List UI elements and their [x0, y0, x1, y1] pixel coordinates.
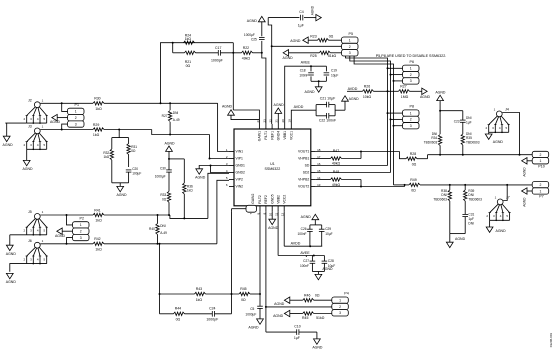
svg-text:2: 2 [339, 305, 341, 309]
svg-text:DNI: DNI [160, 224, 166, 228]
svg-text:2: 2 [540, 153, 542, 157]
svg-text:C21 10µF: C21 10µF [320, 97, 335, 101]
svg-text:R27: R27 [400, 84, 406, 88]
svg-text:1MΩ: 1MΩ [401, 95, 409, 99]
svg-text:0Ω: 0Ω [412, 162, 417, 166]
svg-text:R46: R46 [304, 294, 310, 298]
svg-text:J7: J7 [506, 196, 510, 200]
svg-text:DNI: DNI [466, 116, 472, 120]
svg-text:AGND: AGND [435, 91, 446, 95]
svg-text:49kΩ: 49kΩ [332, 183, 341, 187]
svg-text:P6: P6 [410, 60, 414, 64]
svg-text:AVDD: AVDD [294, 105, 304, 109]
svg-text:1: 1 [410, 111, 412, 115]
svg-text:0Ω: 0Ω [186, 64, 191, 68]
svg-text:AGND: AGND [50, 120, 61, 124]
svg-text:TBD0603: TBD0603 [466, 141, 480, 145]
svg-text:DNI: DNI [441, 193, 447, 197]
svg-text:AGND: AGND [310, 5, 314, 15]
svg-text:R49: R49 [410, 178, 416, 182]
svg-text:AGND: AGND [322, 267, 333, 271]
svg-text:C26: C26 [301, 227, 307, 231]
svg-text:100µF: 100µF [132, 172, 141, 176]
svg-text:J5: J5 [28, 210, 32, 214]
svg-text:AGND: AGND [248, 325, 259, 329]
svg-text:10kΩ: 10kΩ [363, 95, 372, 99]
svg-text:C18: C18 [300, 69, 306, 73]
svg-text:R30: R30 [94, 97, 100, 101]
svg-text:1kΩ: 1kΩ [187, 189, 193, 193]
svg-text:AVEE: AVEE [301, 61, 311, 65]
svg-text:P5: P5 [349, 32, 353, 36]
svg-text:AGND: AGND [247, 19, 258, 23]
svg-text:R47: R47 [333, 149, 339, 153]
svg-text:J6: J6 [28, 239, 32, 243]
svg-text:1kΩ: 1kΩ [95, 107, 102, 111]
svg-text:AGND: AGND [273, 314, 284, 318]
svg-text:2: 2 [410, 118, 412, 122]
svg-text:SSM6322: SSM6322 [265, 167, 281, 171]
svg-text:2: 2 [349, 45, 351, 49]
svg-text:VOUT1: VOUT1 [298, 150, 309, 154]
svg-text:1µF: 1µF [294, 336, 300, 340]
svg-text:0Ω: 0Ω [411, 188, 416, 192]
svg-text:AGND: AGND [222, 105, 233, 109]
svg-text:R34: R34 [431, 136, 437, 140]
svg-text:FILT1: FILT1 [264, 131, 268, 140]
svg-text:1kΩ: 1kΩ [185, 37, 192, 41]
svg-text:C10: C10 [294, 324, 300, 328]
svg-text:R43: R43 [196, 287, 202, 291]
svg-text:C30: C30 [160, 166, 166, 170]
svg-text:AGND: AGND [116, 193, 127, 197]
svg-text:3: 3 [349, 51, 351, 55]
svg-text:DNI: DNI [468, 193, 474, 197]
svg-text:P2: P2 [80, 217, 84, 221]
svg-text:3: 3 [75, 122, 77, 126]
svg-text:GND1: GND1 [236, 164, 246, 168]
svg-text:DNI: DNI [466, 132, 472, 136]
svg-text:AGND: AGND [496, 229, 507, 233]
svg-text:C19: C19 [331, 69, 337, 73]
svg-text:C20: C20 [132, 167, 138, 171]
svg-text:1kΩ: 1kΩ [95, 219, 102, 223]
svg-text:R42: R42 [94, 237, 100, 241]
svg-text:1: 1 [349, 38, 351, 42]
svg-text:1000pF: 1000pF [211, 59, 223, 63]
svg-text:0Ω: 0Ω [241, 298, 246, 302]
svg-text:C23: C23 [454, 119, 460, 123]
svg-text:C4: C4 [299, 10, 304, 14]
svg-text:0Ω: 0Ω [176, 318, 181, 322]
svg-text:1kΩ: 1kΩ [93, 133, 100, 137]
svg-text:1000µF: 1000µF [245, 313, 256, 317]
svg-text:R27: R27 [162, 114, 168, 118]
svg-text:VHPB1: VHPB1 [298, 157, 309, 161]
svg-text:P4: P4 [344, 292, 348, 296]
svg-text:0Ω: 0Ω [329, 35, 334, 39]
svg-text:AGND: AGND [420, 95, 431, 99]
svg-text:DNI: DNI [432, 132, 438, 136]
svg-text:AGND: AGND [274, 302, 285, 306]
svg-text:VIP2: VIP2 [236, 178, 243, 182]
svg-text:U1: U1 [270, 162, 275, 166]
svg-text:51kΩ: 51kΩ [316, 316, 325, 320]
svg-text:AGND: AGND [6, 280, 17, 284]
svg-text:P10: P10 [538, 164, 544, 168]
svg-text:AGND: AGND [55, 234, 66, 238]
svg-text:1: 1 [540, 159, 542, 163]
svg-text:49kΩ: 49kΩ [242, 57, 251, 61]
svg-text:1µF: 1µF [298, 24, 304, 28]
svg-text:0Ω: 0Ω [315, 294, 320, 298]
svg-text:VBB1: VBB1 [283, 131, 287, 140]
svg-text:1kΩ: 1kΩ [95, 247, 102, 251]
svg-text:AGND: AGND [283, 56, 294, 60]
svg-text:C29: C29 [325, 227, 331, 231]
svg-text:VCC2: VCC2 [282, 195, 286, 204]
svg-text:R28: R28 [410, 152, 416, 156]
svg-text:2: 2 [80, 229, 82, 233]
svg-text:DNI: DNI [173, 111, 179, 115]
svg-text:1: 1 [540, 189, 542, 193]
svg-text:GAIN2: GAIN2 [251, 194, 255, 204]
svg-text:R40: R40 [149, 227, 155, 231]
svg-text:AGND: AGND [349, 97, 360, 101]
svg-text:R38: R38 [441, 189, 447, 193]
svg-text:AGND: AGND [6, 252, 17, 256]
svg-text:100nF: 100nF [297, 232, 306, 236]
svg-text:GND5: GND5 [270, 194, 274, 204]
svg-text:R44: R44 [175, 307, 181, 311]
svg-text:3: 3 [339, 311, 341, 315]
svg-text:VOUT2: VOUT2 [298, 185, 309, 189]
svg-text:FILT2: FILT2 [258, 195, 262, 204]
svg-text:J3: J3 [28, 125, 32, 129]
svg-text:R41: R41 [94, 208, 100, 212]
svg-text:R48: R48 [333, 170, 339, 174]
svg-text:REF1: REF1 [270, 131, 274, 140]
svg-text:VIN1: VIN1 [236, 150, 244, 154]
svg-text:1: 1 [80, 223, 82, 227]
svg-text:1µF: 1µF [468, 217, 474, 221]
svg-text:1kΩ: 1kΩ [103, 155, 109, 159]
svg-text:VCC1: VCC1 [290, 131, 294, 140]
svg-text:AGND: AGND [274, 103, 285, 107]
svg-text:1000pF: 1000pF [206, 318, 218, 322]
svg-text:C22 100nF: C22 100nF [319, 119, 336, 123]
svg-text:51kΩ: 51kΩ [328, 54, 337, 58]
svg-text:1: 1 [339, 298, 341, 302]
svg-text:R45: R45 [240, 287, 246, 291]
svg-text:VBB2: VBB2 [276, 195, 280, 204]
svg-text:0Ω: 0Ω [131, 149, 136, 153]
svg-text:10µF: 10µF [331, 74, 338, 78]
svg-text:C28: C28 [328, 259, 334, 263]
svg-text:TBD0603: TBD0603 [433, 198, 447, 202]
svg-text:2: 2 [540, 183, 542, 187]
svg-text:AGND: AGND [3, 143, 14, 147]
svg-text:TBD0603: TBD0603 [424, 141, 438, 145]
svg-text:R23: R23 [310, 35, 316, 39]
svg-text:AGND: AGND [312, 345, 323, 349]
svg-text:1µF: 1µF [466, 120, 472, 124]
svg-text:R33: R33 [160, 193, 166, 197]
svg-text:1kΩ: 1kΩ [196, 298, 203, 302]
svg-text:VHPB2: VHPB2 [298, 178, 309, 182]
svg-text:R22: R22 [243, 46, 249, 50]
svg-text:AGND: AGND [301, 215, 312, 219]
svg-text:A-49: A-49 [160, 231, 167, 235]
svg-text:AVDD: AVDD [348, 87, 358, 91]
svg-text:AGND: AGND [195, 175, 206, 179]
svg-text:AGND: AGND [493, 140, 504, 144]
svg-text:3: 3 [80, 236, 82, 240]
svg-text:AGND: AGND [268, 226, 279, 230]
svg-text:C31: C31 [468, 213, 474, 217]
svg-text:AGND: AGND [523, 197, 527, 207]
svg-text:0Ω: 0Ω [162, 197, 167, 201]
svg-text:GAIN1: GAIN1 [258, 131, 262, 141]
svg-text:SD2: SD2 [303, 171, 310, 175]
svg-text:R39: R39 [468, 189, 474, 193]
svg-text:P5,P8 ARE USED TO DISABLE SSM6: P5,P8 ARE USED TO DISABLE SSM6322. [376, 54, 447, 58]
svg-text:VIP1: VIP1 [236, 157, 243, 161]
svg-text:100nF: 100nF [299, 74, 308, 78]
svg-text:1000µF: 1000µF [155, 175, 166, 179]
svg-text:C17: C17 [215, 46, 221, 50]
svg-text:100nF: 100nF [300, 264, 309, 268]
svg-text:AGND: AGND [523, 167, 527, 177]
svg-text:R29: R29 [93, 123, 99, 127]
svg-text:AGND: AGND [290, 39, 301, 43]
svg-text:C24: C24 [209, 307, 215, 311]
svg-text:1: 1 [410, 67, 412, 71]
svg-text:C25: C25 [251, 38, 257, 42]
svg-text:AGND: AGND [22, 167, 33, 171]
svg-text:R45: R45 [302, 316, 308, 320]
svg-text:R26: R26 [364, 84, 370, 88]
svg-text:AVEE: AVEE [300, 251, 310, 255]
svg-text:1: 1 [75, 110, 77, 114]
svg-text:C27: C27 [303, 259, 309, 263]
svg-text:3: 3 [410, 124, 412, 128]
svg-text:J4: J4 [505, 108, 509, 112]
svg-text:2: 2 [75, 116, 77, 120]
svg-text:GND4: GND4 [277, 131, 281, 141]
svg-text:3: 3 [410, 79, 412, 83]
svg-text:R35: R35 [466, 136, 472, 140]
svg-text:J2: J2 [28, 98, 32, 102]
svg-text:VIN2: VIN2 [236, 185, 244, 189]
svg-text:DNI: DNI [468, 221, 474, 225]
svg-text:03208-001: 03208-001 [549, 333, 553, 348]
svg-text:A-49: A-49 [173, 118, 180, 122]
svg-text:P7: P7 [539, 195, 543, 199]
svg-text:1000µF: 1000µF [244, 33, 255, 37]
svg-text:49kΩ: 49kΩ [332, 161, 341, 165]
svg-text:AGND: AGND [455, 237, 466, 241]
svg-text:10µF: 10µF [325, 232, 332, 236]
svg-text:GND2: GND2 [236, 171, 246, 175]
svg-text:SD: SD [305, 164, 310, 168]
svg-text:R25: R25 [310, 54, 316, 58]
svg-text:2: 2 [410, 73, 412, 77]
svg-text:TBD0603: TBD0603 [468, 198, 482, 202]
svg-text:REF2: REF2 [264, 195, 268, 204]
svg-text:AGND: AGND [304, 90, 315, 94]
svg-text:AVDD: AVDD [291, 242, 301, 246]
svg-text:AGND: AGND [164, 142, 175, 146]
svg-text:P8: P8 [410, 105, 414, 109]
svg-text:P1: P1 [75, 103, 79, 107]
svg-text:C5: C5 [250, 307, 254, 311]
